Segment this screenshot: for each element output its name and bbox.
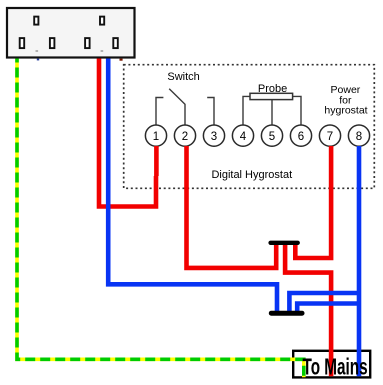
svg-text:hygrostat: hygrostat <box>324 105 367 117</box>
mark right <box>101 50 104 51</box>
probe lead terminal 4 <box>243 96 250 125</box>
red wire terminal 2 to junction <box>187 146 277 268</box>
dark red stub <box>120 59 123 61</box>
blue wire terminal 8 to mains <box>357 146 362 376</box>
contact stub terminal 3 <box>207 98 214 126</box>
svg-text:4: 4 <box>240 131 247 143</box>
probe body <box>250 93 293 99</box>
junction bar neutral <box>271 311 302 316</box>
svg-text:8: 8 <box>356 131 362 143</box>
mark left <box>36 50 39 51</box>
red wire terminal 7 to junction <box>295 146 331 258</box>
probe lead terminal 5 <box>271 100 273 125</box>
svg-text:Switch: Switch <box>167 71 199 83</box>
socket pin slot 3 <box>85 38 90 48</box>
hygrostat dashed box <box>124 65 375 189</box>
earth wire yellow base <box>17 59 304 378</box>
svg-text:2: 2 <box>182 131 188 143</box>
terminal 6 <box>290 125 311 146</box>
socket pin slot 4 <box>113 38 118 48</box>
blue wire junction branch lower <box>297 304 359 313</box>
earth wire green dashes <box>17 59 304 378</box>
terminal 4 <box>232 125 253 146</box>
terminal 8 <box>348 125 369 146</box>
socket pin slot 1 <box>20 38 25 48</box>
terminal 5 <box>261 125 282 146</box>
svg-text:5: 5 <box>269 131 275 143</box>
blue stub <box>37 59 39 61</box>
svg-text:7: 7 <box>327 131 333 143</box>
switch contact from terminal 1 <box>156 98 163 126</box>
junction bar live <box>271 241 298 245</box>
socket earth slot right <box>100 17 104 25</box>
svg-text:1: 1 <box>153 131 159 143</box>
To Mains box <box>293 351 370 378</box>
socket pin slot 2 <box>50 38 55 48</box>
switch lever from terminal 2 <box>169 89 185 125</box>
socket earth slot left <box>34 17 38 25</box>
red wire socket live to terminal 1 <box>99 59 156 207</box>
blue wire junction branch upper <box>289 293 359 312</box>
terminal 7 <box>319 125 340 146</box>
svg-text:Digital Hygrostat: Digital Hygrostat <box>211 169 292 181</box>
blue wire socket neutral to junction <box>108 59 277 313</box>
socket box <box>7 8 135 58</box>
terminal 3 <box>203 125 224 146</box>
red wire junction to mains <box>285 244 331 377</box>
svg-text:To Mains: To Mains <box>303 355 368 381</box>
svg-text:3: 3 <box>211 131 217 143</box>
svg-text:6: 6 <box>298 131 304 143</box>
probe lead terminal 6 <box>293 96 301 125</box>
terminal 1 <box>145 125 166 146</box>
terminal 2 <box>174 125 195 146</box>
svg-text:Probe: Probe <box>258 83 287 95</box>
